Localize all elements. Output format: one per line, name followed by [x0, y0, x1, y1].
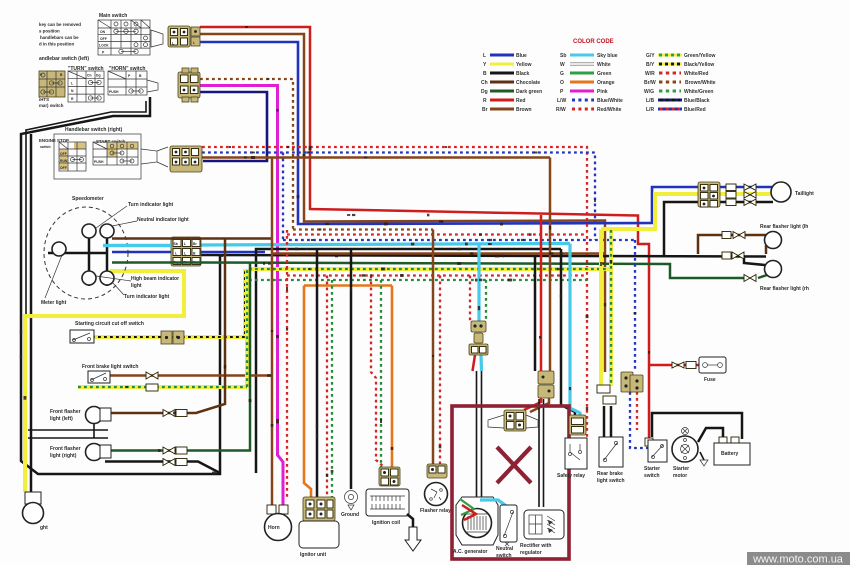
wire black starter loop	[652, 413, 742, 439]
svg-text:Turn indicator light: Turn indicator light	[128, 202, 174, 208]
starter motor	[672, 428, 698, 480]
svg-text:L/R: L/R	[646, 107, 654, 113]
wire black to ignitor	[316, 249, 319, 497]
svg-text:www.moto.com.ua: www.moto.com.ua	[752, 554, 844, 565]
black bowtie connectors on rear black wire	[722, 252, 731, 259]
wire sky blue to generator connector	[477, 244, 480, 322]
ignitor unit	[299, 497, 339, 558]
wire black to generator connectors	[534, 256, 537, 371]
svg-text:OFF: OFF	[60, 152, 67, 156]
svg-text:L: L	[175, 252, 177, 256]
svg-text:OFF: OFF	[100, 37, 107, 41]
svg-text:switch: switch	[496, 553, 512, 559]
wire red/white dashed to ignitor 2	[326, 276, 328, 498]
svg-text:Ignitor unit: Ignitor unit	[300, 552, 326, 558]
wire red/white dashed to flasher relay	[439, 276, 441, 465]
wire pink from horn switch to horn	[200, 86, 283, 508]
wire white pair to AC generator	[477, 371, 482, 500]
maroon box	[452, 406, 569, 559]
svg-text:Neutral indicator light: Neutral indicator light	[137, 217, 189, 223]
front brake light switch	[82, 364, 158, 391]
svg-text:Main switch: Main switch	[99, 13, 127, 19]
svg-text:LOCK: LOCK	[99, 44, 109, 48]
svg-text:iHTS: iHTS	[39, 97, 49, 102]
svg-text:B: B	[483, 71, 487, 77]
speedometer wires to connector	[112, 237, 201, 240]
svg-text:Front brake light switch: Front brake light switch	[82, 364, 138, 370]
svg-text:regulator: regulator	[520, 550, 542, 556]
wire dark green/white dashed to ignitor	[331, 280, 333, 497]
svg-text:handlebars can be: handlebars can be	[40, 35, 79, 40]
svg-text:Blue: Blue	[516, 53, 527, 59]
wire green/white dashed to ignition coil	[380, 280, 382, 467]
lights dimmer table	[39, 71, 65, 108]
wire brown to horn	[271, 158, 274, 508]
front flasher light left	[50, 407, 187, 424]
wire red/white dashed cluster riser	[636, 392, 638, 430]
svg-text:L/W: L/W	[557, 98, 566, 104]
wire orange bus	[304, 284, 392, 287]
wire black/yellow dashed starting circuit cut off	[92, 269, 245, 337]
svg-text:A.C. generator: A.C. generator	[453, 549, 488, 555]
wire dark green rear flasher right	[758, 275, 767, 278]
svg-text:Dg: Dg	[96, 74, 101, 78]
ignition coil	[366, 467, 421, 551]
horn	[265, 505, 292, 541]
svg-text:Rear brake: Rear brake	[597, 471, 623, 477]
rear brake light switch	[597, 385, 625, 484]
svg-text:G: G	[560, 71, 564, 77]
svg-text:Blue/Red: Blue/Red	[684, 107, 706, 113]
wire black front flasher right lower	[105, 462, 220, 474]
svg-text:L: L	[483, 53, 486, 59]
wire white pair rectifier to connector	[539, 399, 544, 507]
wire sky blue to safety relay	[570, 244, 580, 416]
wire orange to ignition coil	[391, 286, 394, 468]
wire green/yellow dashed bus	[249, 267, 611, 271]
connector above generator	[469, 321, 488, 355]
svg-text:Front flasher: Front flasher	[50, 409, 81, 415]
svg-text:G/Y: G/Y	[646, 53, 655, 59]
wire blue/white dashed to cluster and starter switch	[630, 240, 650, 448]
wire blue/black from horn switch to start switch	[200, 92, 267, 161]
wire blue speedometer	[112, 251, 265, 254]
wire red/white dashed to ignition coil	[371, 276, 384, 468]
AC generator	[453, 497, 505, 555]
wire brown bus lower	[272, 252, 605, 255]
svg-text:L: L	[172, 42, 174, 46]
wire sky blue bus	[103, 244, 570, 246]
svg-text:s position: s position	[39, 29, 60, 34]
svg-text:light (left): light (left)	[50, 416, 73, 422]
fuse	[672, 357, 726, 383]
svg-text:andlebar switch (left): andlebar switch (left)	[39, 56, 89, 62]
svg-text:Flasher relay: Flasher relay	[420, 508, 451, 514]
flasher relay	[420, 464, 451, 514]
svg-text:d in this position: d in this position	[39, 42, 74, 47]
svg-text:Yellow: Yellow	[516, 62, 532, 68]
starting circuit cut off switch	[70, 321, 184, 344]
horn switch table	[108, 66, 158, 95]
svg-text:White: White	[597, 62, 611, 68]
wire black bus upper	[256, 249, 561, 473]
connector horn/turn	[178, 68, 200, 102]
wire red/white dashed to ignitor	[286, 230, 288, 497]
wire brown/white dashed from horn switch	[200, 79, 433, 230]
wire red/white dashed bus	[287, 233, 587, 235]
wire blue main switch to taillight	[200, 42, 773, 224]
svg-text:W: W	[560, 62, 565, 68]
svg-text:L: L	[184, 252, 186, 256]
taillight inline connectors	[726, 184, 756, 206]
svg-text:Dark green: Dark green	[516, 89, 542, 95]
svg-text:Fuse: Fuse	[704, 377, 716, 383]
svg-text:Brown: Brown	[516, 107, 532, 113]
svg-text:Blue/White: Blue/White	[597, 98, 623, 104]
svg-text:Horn: Horn	[268, 525, 280, 531]
svg-text:Green: Green	[597, 71, 611, 77]
wire red below generator connector	[473, 355, 476, 371]
svg-text:Ch: Ch	[481, 80, 488, 86]
wire red main switch	[200, 27, 655, 441]
handlebar switch right	[39, 127, 168, 179]
svg-text:O: O	[560, 80, 564, 86]
wire sky blue below generator connector	[479, 355, 483, 371]
connector handlebar right	[170, 146, 202, 172]
rectifier with regulator	[520, 510, 564, 556]
wire dark green front flasher right riser	[110, 263, 250, 451]
svg-text:ON: ON	[100, 30, 106, 34]
svg-text:L: L	[71, 82, 73, 86]
wire green/yellow dashed front brake	[78, 269, 247, 387]
svg-text:Pink: Pink	[597, 89, 608, 95]
svg-text:Ignition coil: Ignition coil	[372, 520, 401, 526]
svg-text:light switch: light switch	[597, 478, 625, 484]
svg-text:Dg: Dg	[481, 89, 488, 95]
connector cluster	[621, 372, 643, 392]
svg-text:Ground: Ground	[341, 512, 359, 518]
svg-text:Sb: Sb	[174, 242, 178, 246]
svg-text:Speedometer: Speedometer	[72, 196, 104, 202]
svg-text:switch: switch	[40, 145, 51, 149]
svg-text:light (right): light (right)	[50, 453, 77, 459]
svg-text:White/Red: White/Red	[684, 71, 708, 77]
svg-text:W/R: W/R	[645, 71, 655, 77]
wire blue/white dashed bus	[283, 239, 635, 241]
wire brown rear flasher left	[698, 235, 766, 254]
svg-text:L: L	[184, 242, 186, 246]
svg-text:Blue/Black: Blue/Black	[684, 98, 710, 104]
speedometer	[41, 196, 189, 306]
main switch table	[98, 13, 163, 55]
svg-text:mar) switch: mar) switch	[39, 103, 64, 108]
svg-text:R/W: R/W	[556, 107, 566, 113]
wire chocolate front flasher left riser	[110, 239, 225, 413]
wire red fuse feed	[650, 364, 699, 367]
svg-text:light: light	[131, 283, 142, 289]
wire black rear flasher branches	[744, 256, 765, 265]
svg-text:Battery: Battery	[721, 451, 738, 457]
svg-text:Sb: Sb	[560, 53, 566, 59]
wire black to ground	[350, 249, 353, 489]
wire yellow speedometer loop to headlight	[25, 271, 184, 492]
svg-text:High beam indicator: High beam indicator	[131, 276, 179, 282]
svg-text:White/Green: White/Green	[684, 89, 713, 95]
wire brown to flasher relay	[432, 230, 435, 465]
wire code label specks	[20, 26, 650, 477]
svg-text:key can be removed: key can be removed	[39, 22, 81, 27]
wire brown from start switch to generator connector	[202, 156, 550, 159]
svg-text:R: R	[483, 98, 487, 104]
wire red/white dashed from start switch	[202, 147, 587, 440]
fuse inline connector	[686, 362, 696, 369]
svg-text:L: L	[193, 41, 195, 45]
svg-text:Neutral: Neutral	[496, 546, 514, 552]
watermark	[747, 552, 850, 565]
wire dark green bus to rear flasher	[201, 263, 744, 279]
connector pair above generator box	[538, 371, 554, 398]
svg-text:Red/White: Red/White	[597, 107, 622, 113]
svg-text:B/Y: B/Y	[646, 62, 655, 68]
svg-text:RUN: RUN	[60, 159, 68, 163]
col1	[481, 53, 542, 113]
wire chocolate bus	[201, 237, 272, 240]
wire yellow bus to taillight	[601, 194, 773, 229]
svg-text:Brown/White: Brown/White	[685, 80, 716, 86]
wire black parallel to frame	[26, 101, 146, 438]
wire green/white dashed to generator connector	[485, 280, 487, 321]
svg-text:Front flasher: Front flasher	[50, 446, 81, 452]
svg-text:Taillight: Taillight	[795, 191, 814, 197]
svg-text:Red: Red	[516, 98, 525, 104]
wire blue/white dashed from start switch	[202, 153, 595, 241]
taillight connector	[698, 182, 720, 207]
svg-text:Safety relay: Safety relay	[557, 473, 585, 479]
wire black frame from handlebar-left switch down left side	[21, 97, 220, 474]
safety relay	[557, 415, 587, 479]
svg-text:ght: ght	[40, 525, 48, 531]
svg-text:Sky blue: Sky blue	[597, 53, 618, 59]
wire brown into generator box connector	[530, 158, 550, 413]
generator box connector	[488, 410, 538, 431]
col3	[644, 53, 716, 113]
connector speedometer	[171, 237, 201, 266]
wire red/white dashed to generator connector	[469, 276, 471, 322]
wire yellow to rear brake switch	[599, 229, 603, 386]
X mark	[497, 447, 531, 483]
wire black headlight feed	[30, 134, 33, 492]
connector main switch	[168, 26, 200, 47]
taillight	[771, 182, 814, 202]
col2	[556, 53, 623, 113]
neutral switch	[496, 505, 517, 559]
rear flasher left	[722, 224, 808, 249]
svg-text:Br/W: Br/W	[644, 80, 656, 86]
svg-text:Starter: Starter	[673, 466, 689, 472]
wire red to generator box connector	[524, 215, 541, 410]
svg-text:W/G: W/G	[644, 89, 654, 95]
svg-text:Br: Br	[482, 107, 488, 113]
turn switch table	[68, 66, 104, 102]
wire dark green speedometer	[112, 261, 201, 264]
note text top left	[39, 22, 81, 47]
svg-text:motor: motor	[673, 473, 687, 479]
wire green/yellow dashed to rear brake connector	[609, 230, 613, 386]
svg-text:Black/Yellow: Black/Yellow	[684, 62, 714, 68]
svg-text:COLOR CODE: COLOR CODE	[573, 39, 614, 45]
wire black to safety relay	[561, 249, 575, 415]
svg-text:PUSH: PUSH	[94, 160, 104, 164]
wire dark green/white dashed bus	[249, 279, 587, 281]
svg-text:Rear flasher light (lh: Rear flasher light (lh	[760, 224, 808, 230]
battery	[700, 437, 750, 466]
wire black bus to taillight	[201, 202, 773, 257]
ground	[341, 491, 359, 519]
svg-text:Starting circuit cut off switc: Starting circuit cut off switch	[75, 321, 144, 327]
svg-text:Meter light: Meter light	[41, 300, 67, 306]
rear flasher right	[744, 261, 809, 293]
svg-text:Orange: Orange	[597, 80, 615, 86]
svg-text:switch: switch	[644, 473, 660, 479]
wire black front flasher left stub	[93, 423, 95, 438]
wire black pair to rear brake switch	[604, 406, 611, 437]
svg-text:Green/Yellow: Green/Yellow	[684, 53, 716, 59]
svg-text:Ch: Ch	[87, 74, 92, 78]
wire orange to ignitor	[304, 286, 311, 498]
svg-text:Handlebar switch (right): Handlebar switch (right)	[65, 127, 123, 133]
front flasher light right	[50, 444, 187, 466]
svg-text:Black: Black	[516, 71, 530, 77]
svg-text:Starter: Starter	[644, 466, 660, 472]
svg-text:L/B: L/B	[646, 98, 654, 104]
svg-text:Turn indicator light: Turn indicator light	[124, 294, 170, 300]
wire brown front brake light switch	[110, 374, 273, 377]
wire black battery ground	[700, 452, 704, 460]
wire brown main switch	[200, 34, 605, 372]
svg-text:Rectifier with: Rectifier with	[520, 543, 551, 549]
svg-text:Rear flasher light (rh: Rear flasher light (rh	[760, 286, 809, 292]
starter switch	[644, 438, 667, 479]
headlight	[23, 492, 49, 531]
wire red/white dashed bus lower	[287, 274, 587, 276]
svg-text:OFF: OFF	[60, 166, 67, 170]
wire black battery to starter motor	[698, 428, 723, 442]
wire black front flasher bracket	[28, 430, 108, 438]
svg-text:PUSH: PUSH	[109, 90, 119, 94]
svg-text:Chocolate: Chocolate	[516, 80, 540, 86]
